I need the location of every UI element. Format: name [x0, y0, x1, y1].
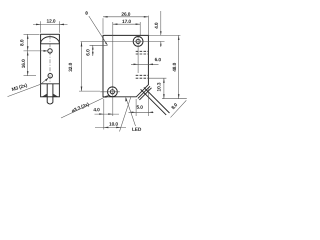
front body outline: [103, 35, 148, 96]
48.0 top ext: [148, 34, 180, 36]
dimension 6.0 left line: [92, 45, 94, 56]
dim line vertical x=28: [27, 34, 29, 75]
arrow at hole F2: [105, 95, 109, 98]
hole S1 (top): [48, 49, 52, 53]
48.0 arrows: [178, 35, 180, 40]
hole F1 outer: [133, 37, 143, 47]
dimension 12.0 arrows: [36, 24, 41, 26]
5.0 arrows: [132, 112, 137, 114]
M3 leader: [8, 78, 48, 96]
svg-text:6.0: 6.0: [86, 49, 92, 56]
slot rounded bottom: [47, 103, 53, 105]
hole F1 inner: [136, 39, 140, 43]
5.0 ext lines: [136, 87, 148, 116]
dimension 48.0 tall line: [178, 35, 180, 98]
dimension 4.0 bottom line: [95, 113, 120, 115]
4.0 arrows: [160, 31, 162, 35]
10.3 arrows: [163, 78, 165, 83]
arrow at LED: [125, 97, 127, 102]
32.0 ext bottom: [79, 90, 100, 92]
dimension 32.0 line: [81, 42, 83, 91]
hidden dashes lower: [136, 75, 149, 78]
hole F1 crosshair: [81, 36, 165, 73]
svg-text:LED: LED: [132, 127, 142, 133]
4.0 bottom arrows: [99, 113, 104, 115]
svg-text:4.0: 4.0: [154, 22, 160, 29]
26.0 arrows: [103, 16, 108, 18]
svg-text:12.0: 12.0: [47, 19, 56, 25]
svg-text:6.0: 6.0: [155, 57, 162, 63]
svg-text:θ: θ: [85, 11, 88, 17]
svg-text:48.0: 48.0: [172, 62, 178, 71]
6.0 left arrows: [92, 45, 94, 49]
hole F2 crosshair: [100, 91, 120, 93]
svg-text:10.0: 10.0: [109, 122, 118, 128]
LED leader: [126, 98, 136, 126]
beam lines at 45 deg: [141, 87, 170, 115]
hole F2 outer: [108, 87, 118, 97]
oblique extension for 10.0: [120, 97, 131, 131]
48.0 bottom ext: [162, 98, 187, 100]
bottom dims: left ext line: [103, 99, 105, 130]
hidden dashes upper: [136, 51, 149, 54]
dimension 5.0 line: [129, 111, 154, 113]
dimension 12.0 line: [33, 23, 68, 25]
dimension 4.0 top right line: [160, 11, 162, 35]
17.0 extension lines: [139, 22, 141, 35]
LED window parallel lines: [138, 86, 152, 100]
dimension 26.0 line: [103, 16, 148, 18]
slot lines: [47, 84, 53, 103]
svg-text:32.0: 32.0: [68, 62, 74, 71]
dimension 10.0 line: [95, 126, 126, 128]
svg-text:⌀3.3 (2x): ⌀3.3 (2x): [71, 102, 91, 115]
side body outline: [41, 34, 60, 97]
horizontal line across body: [41, 83, 60, 85]
hole S2 (lower): [48, 74, 52, 78]
dimension 6.0 right line: [131, 63, 159, 65]
svg-text:10.3: 10.3: [157, 82, 163, 91]
theta leader: [89, 16, 108, 45]
26.0 extension lines: [103, 16, 148, 36]
svg-text:16.0: 16.0: [21, 59, 27, 68]
extension lines for 12.0: [41, 21, 60, 33]
svg-text:5.0: 5.0: [137, 105, 144, 111]
arrows 8.0: [27, 34, 29, 39]
10.0 arrows: [104, 127, 109, 129]
dimension 17.0 line: [113, 23, 140, 25]
vertical feature line B (hole2 centerline): [112, 22, 114, 116]
arrows 16.0: [27, 51, 29, 56]
17.0 arrows: [113, 23, 118, 25]
arrow at hole S1: [44, 50, 48, 52]
centerline side view: [49, 35, 51, 82]
dome arc: [41, 37, 60, 44]
dark wedge right: [53, 94, 58, 97]
diameter leader: [61, 95, 109, 118]
svg-text:8.0: 8.0: [20, 39, 26, 46]
diagonal dim 8.0 line: [171, 100, 187, 117]
32.0 arrows: [81, 42, 83, 47]
svg-text:M3 (2x): M3 (2x): [11, 83, 28, 94]
dome chord line: [41, 43, 60, 45]
6.0 right arrows: [134, 64, 139, 66]
10.3 top ext: [149, 77, 167, 79]
svg-text:4.0: 4.0: [93, 107, 100, 113]
dark wedge left: [42, 94, 47, 97]
left stacked dims extension lines: [24, 33, 40, 35]
hole F2 inner: [110, 90, 114, 94]
optical axis ext line: [90, 44, 108, 46]
dimension 10.3 line: [163, 78, 165, 98]
arrow at hole S2: [45, 78, 49, 82]
